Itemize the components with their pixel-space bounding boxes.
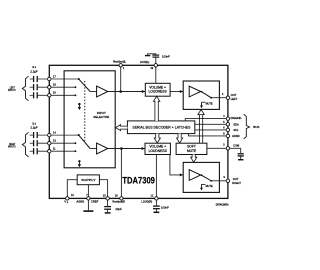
control arrow serial bus to input selector (116, 125, 128, 131)
pin 7 AGND (76, 193, 90, 203)
wire ADDR pin 8 (189, 134, 228, 136)
svg-text:100nF: 100nF (162, 55, 170, 59)
wire CSM pin 3 (207, 147, 228, 149)
svg-text:LEFT: LEFT (231, 97, 238, 101)
supply block (77, 175, 99, 185)
mute switch right (201, 174, 212, 181)
svg-text:LOUDNESS: LOUDNESS (149, 149, 168, 153)
svg-text:AGND: AGND (76, 200, 84, 204)
wire volume right to output stage right (170, 155, 183, 175)
capacitor 100nF at LOUD(L) (148, 54, 160, 66)
pin 8 ADDR (223, 132, 240, 139)
capacitor input L1 2.2uF (30, 76, 38, 82)
arrowhead into volume right (142, 147, 145, 150)
wire input R1 (38, 134, 79, 136)
label LEFT INPUTS (8, 86, 16, 93)
svg-text:INPUTS: INPUTS (8, 88, 16, 92)
ground at LOUD(R) capacitor (154, 211, 160, 213)
svg-text:Rext(out)L: Rext(out)L (113, 60, 127, 64)
mute arrow left output (200, 102, 213, 108)
wire supply to pin 15 CREF (99, 180, 107, 199)
capacitor input R2 2.2uF (30, 140, 38, 146)
svg-text:2.2µF: 2.2µF (30, 69, 38, 73)
pin 1 Rext(out)L (113, 60, 127, 70)
svg-text:MUTE: MUTE (206, 185, 213, 188)
pin 3 CSM (223, 143, 240, 150)
wire output right to pin 9 (211, 180, 228, 182)
capacitor input R1 2.2uF (30, 132, 38, 138)
pin 16 Rext(out)R (112, 194, 125, 204)
svg-text:BUS: BUS (253, 125, 259, 129)
pin 12 LOUD(R) (141, 194, 158, 204)
pin 10 VS (64, 193, 74, 204)
wire input R2 (38, 142, 76, 144)
arrowhead into output stage right (180, 173, 183, 176)
op-amp output right (189, 170, 201, 181)
control arrow serial bus to soft mute (177, 134, 183, 143)
pin 18 (48, 83, 57, 89)
svg-text:INPUTS: INPUTS (8, 145, 16, 149)
svg-text:LOUD(L): LOUD(L) (140, 60, 150, 64)
ganged switch dashed link (84, 81, 86, 141)
arrowhead into output stage left (180, 90, 183, 93)
svg-text:22µF: 22µF (115, 207, 122, 211)
label 3 x 2.2uF (right group) (30, 121, 38, 129)
wire pin1 Rext(out)L (120, 65, 122, 91)
mute arrow right output (200, 184, 213, 190)
svg-text:DIGGND: DIGGND (231, 116, 242, 120)
mute position arrow right selector (78, 160, 81, 167)
wire A2 output to volume right (108, 148, 145, 150)
wire SDA pin 5 (195, 123, 228, 125)
svg-text:CREF: CREF (91, 200, 99, 204)
op-amp buffer A1 (left) (97, 86, 108, 97)
wire input L1 (38, 78, 79, 80)
svg-text:TDA7309: TDA7309 (122, 176, 154, 186)
wire supply to pin 10 VS (67, 180, 77, 199)
wire input L2 (38, 86, 76, 88)
volume + loudness block (left) (145, 83, 170, 96)
svg-text:D97AU805A: D97AU805A (216, 203, 229, 206)
junction node Rext(out)R (120, 147, 123, 150)
output stage box (right) (183, 162, 219, 192)
capacitor input L2 2.2uF (30, 84, 38, 90)
svg-text:MUTE: MUTE (206, 103, 213, 106)
serial bus decoder + latches block (127, 121, 194, 134)
pin 11 (48, 147, 57, 153)
wire LOUD(R) pin 12 to volume right (155, 155, 157, 199)
capacitor 100nF at LOUD(R) (153, 198, 160, 211)
wire pin19 LOUD(L) to volume left (155, 65, 157, 83)
label INPUT SELECTOR (93, 111, 110, 119)
capacitor at CSM pin (228, 148, 244, 159)
pin 14 (48, 130, 57, 136)
mute position arrow left selector (78, 103, 81, 110)
control arrow soft mute to output stage left (198, 110, 204, 144)
wire supply to pin 7 AGND (87, 185, 89, 199)
wire volume left to output stage left (170, 91, 183, 93)
bus brace (244, 114, 250, 139)
capacitor input R3 2.2uF (30, 148, 38, 154)
pin 20 (48, 91, 57, 97)
svg-text:ADDR: ADDR (232, 134, 240, 138)
pin 13 (48, 139, 57, 145)
pin 6 SCL (223, 126, 239, 133)
capacitor 22uF at CREF (104, 198, 111, 212)
control arrow serial bus to volume left (153, 96, 159, 121)
svg-text:SDA: SDA (233, 123, 239, 127)
svg-text:SCL: SCL (233, 128, 239, 132)
pin 4 DIGGND (223, 114, 241, 120)
pin 2 OUT LEFT (222, 92, 238, 101)
input selector block (64, 71, 115, 168)
ground at CSM capacitor (238, 159, 243, 161)
label 3 x 2.2uF (left group) (30, 65, 38, 73)
svg-text:CSM: CSM (233, 143, 240, 147)
wire output left to pin 2 (211, 97, 228, 99)
pin 15 CREF (91, 194, 109, 204)
IC package outline TDA7309 (49, 65, 228, 198)
wire A1 output to volume left (108, 91, 145, 93)
output stage box (left) (183, 81, 219, 109)
ground at AGND pin (83, 198, 93, 211)
svg-text:LOUD(R): LOUD(R) (141, 200, 152, 204)
pin 5 SDA (223, 120, 239, 127)
svg-text:2.2µF: 2.2µF (30, 126, 38, 130)
pin 9 OUT RIGHT (223, 175, 241, 185)
pin 17 (48, 74, 57, 80)
arrowhead into volume left (142, 90, 145, 93)
wire DIGGND pin 4 (185, 119, 228, 121)
white head of control arrow to output stage left (198, 110, 204, 115)
svg-text:SUPPLY: SUPPLY (81, 178, 96, 182)
volume + loudness block (right) (145, 143, 170, 154)
ground at LOUD(L) capacitor (145, 55, 150, 57)
svg-text:LOUDNESS: LOUDNESS (149, 90, 168, 94)
wire pin16 Rext(out)R (120, 149, 122, 199)
ground at CREF capacitor (105, 212, 111, 214)
capacitor input L3 2.2uF (30, 92, 38, 98)
switch S2 right selector (74, 134, 96, 152)
svg-text:SELECTOR: SELECTOR (93, 115, 110, 119)
control arrow serial bus to volume right (154, 134, 160, 143)
svg-text:100nF: 100nF (161, 205, 169, 209)
op-amp output left (189, 86, 201, 97)
right inputs brace (22, 132, 28, 157)
svg-text:MUTE: MUTE (187, 149, 197, 153)
pin 19 LOUD(L) (140, 60, 158, 70)
mute switch left (201, 91, 212, 99)
svg-text:Rext(out)R: Rext(out)R (112, 200, 125, 204)
soft mute block (176, 143, 207, 154)
switch S1 left selector (74, 78, 96, 96)
svg-text:SERIAL BUS DECODER + LATCHES: SERIAL BUS DECODER + LATCHES (132, 126, 191, 130)
control arrow soft mute to output stage right (191, 155, 197, 163)
wire input R3 (38, 150, 76, 152)
left inputs brace (22, 76, 28, 101)
svg-text:RIGHT: RIGHT (232, 181, 241, 185)
junction node Rext(out)L (119, 90, 122, 93)
wire SCL pin 6 (195, 129, 228, 131)
wire input L3 (38, 94, 76, 96)
label RIGHT INPUTS (8, 142, 16, 149)
op-amp buffer A2 (right) (97, 143, 108, 154)
